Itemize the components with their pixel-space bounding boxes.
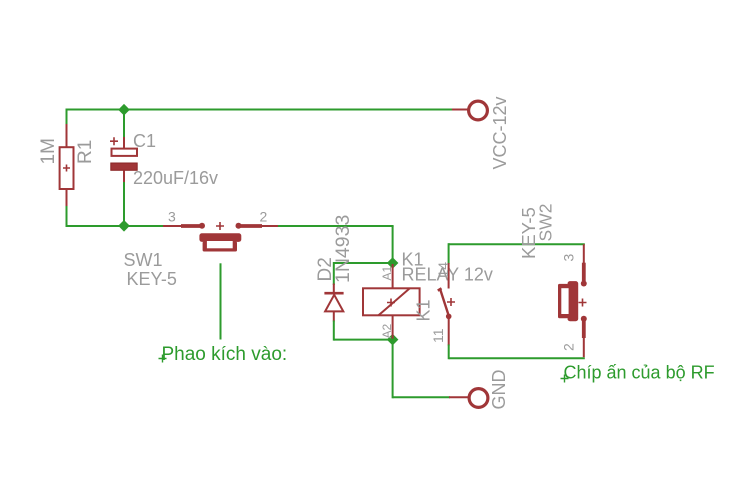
wire SW1 pin2 to relay corner (278, 225, 394, 227)
switch SW1 pin 3 (163, 223, 205, 229)
wire C1 top vertical (123, 110, 125, 139)
svg-text:3: 3 (561, 254, 577, 262)
resistor R1 (60, 124, 74, 206)
svg-text:SW2: SW2 (536, 204, 556, 242)
svg-text:A2: A2 (380, 323, 394, 338)
switch SW1 pin 2 (236, 223, 280, 229)
text origin cross Chip (561, 375, 569, 383)
wire loop left lower (448, 345, 450, 360)
node junction A2 (387, 334, 399, 346)
switch SW1 origin cross (216, 222, 224, 230)
wire GND horizontal (393, 396, 450, 398)
node junction bottom C1 (118, 220, 130, 232)
wire relay branch vertical (392, 226, 394, 263)
wire diode bottom branch (334, 339, 393, 341)
svg-text:14: 14 (435, 262, 451, 278)
wire C1 bottom vertical (123, 181, 125, 227)
node junction A1 (387, 257, 399, 269)
svg-text:A1: A1 (380, 265, 394, 280)
relay contact K1 (438, 263, 455, 346)
diode D2 (324, 284, 343, 322)
wire diode lower vertical (333, 321, 335, 341)
svg-text:Chíp ấn của bộ RF: Chíp ấn của bộ RF (564, 363, 715, 383)
wire loop left upper (448, 243, 450, 264)
switch SW2 pin 2 (581, 316, 587, 357)
svg-text:220uF/16v: 220uF/16v (133, 168, 218, 188)
switch SW2 origin cross (579, 299, 587, 307)
relay coil K1 (363, 264, 420, 339)
switch SW2 button body (558, 281, 578, 321)
svg-text:C1: C1 (133, 131, 156, 151)
VCC-12v pad circle (469, 101, 488, 120)
svg-text:KEY-5: KEY-5 (127, 269, 177, 289)
svg-text:VCC-12v: VCC-12v (490, 96, 510, 169)
text origin cross Phao (159, 355, 167, 363)
node junction top C1 (118, 104, 130, 116)
svg-text:1N4933: 1N4933 (332, 215, 354, 283)
capacitor C1 (110, 137, 137, 182)
svg-text:R1: R1 (75, 140, 96, 164)
svg-text:3: 3 (168, 209, 176, 225)
svg-text:2: 2 (561, 343, 577, 351)
wire loop bottom edge (449, 357, 585, 359)
wire GND vertical (392, 340, 394, 399)
wire diode top branch (334, 262, 393, 264)
GND pad circle (469, 389, 488, 408)
svg-text:2: 2 (260, 209, 268, 225)
svg-text:SW1: SW1 (124, 250, 163, 270)
wire top horizontal VCC rail (67, 109, 454, 111)
wire diode upper vertical (333, 262, 335, 285)
svg-text:1M: 1M (38, 138, 59, 164)
switch SW2 pin 3 (581, 244, 587, 286)
GND pin wire (449, 396, 469, 398)
svg-text:GND: GND (489, 370, 509, 410)
wire bottom-left horizontal (67, 225, 164, 227)
svg-text:K1: K1 (414, 299, 434, 321)
wire R1 branch vertical left (66, 109, 68, 127)
switch SW1 button body (199, 233, 241, 251)
svg-text:Phao kích vào:: Phao kích vào: (162, 344, 288, 365)
wire R1 bottom vertical (66, 204, 68, 227)
VCC-12v pin wire (452, 109, 469, 111)
svg-text:11: 11 (430, 328, 446, 343)
wire SW1 stub down (220, 263, 222, 339)
wire loop top edge (449, 243, 585, 245)
